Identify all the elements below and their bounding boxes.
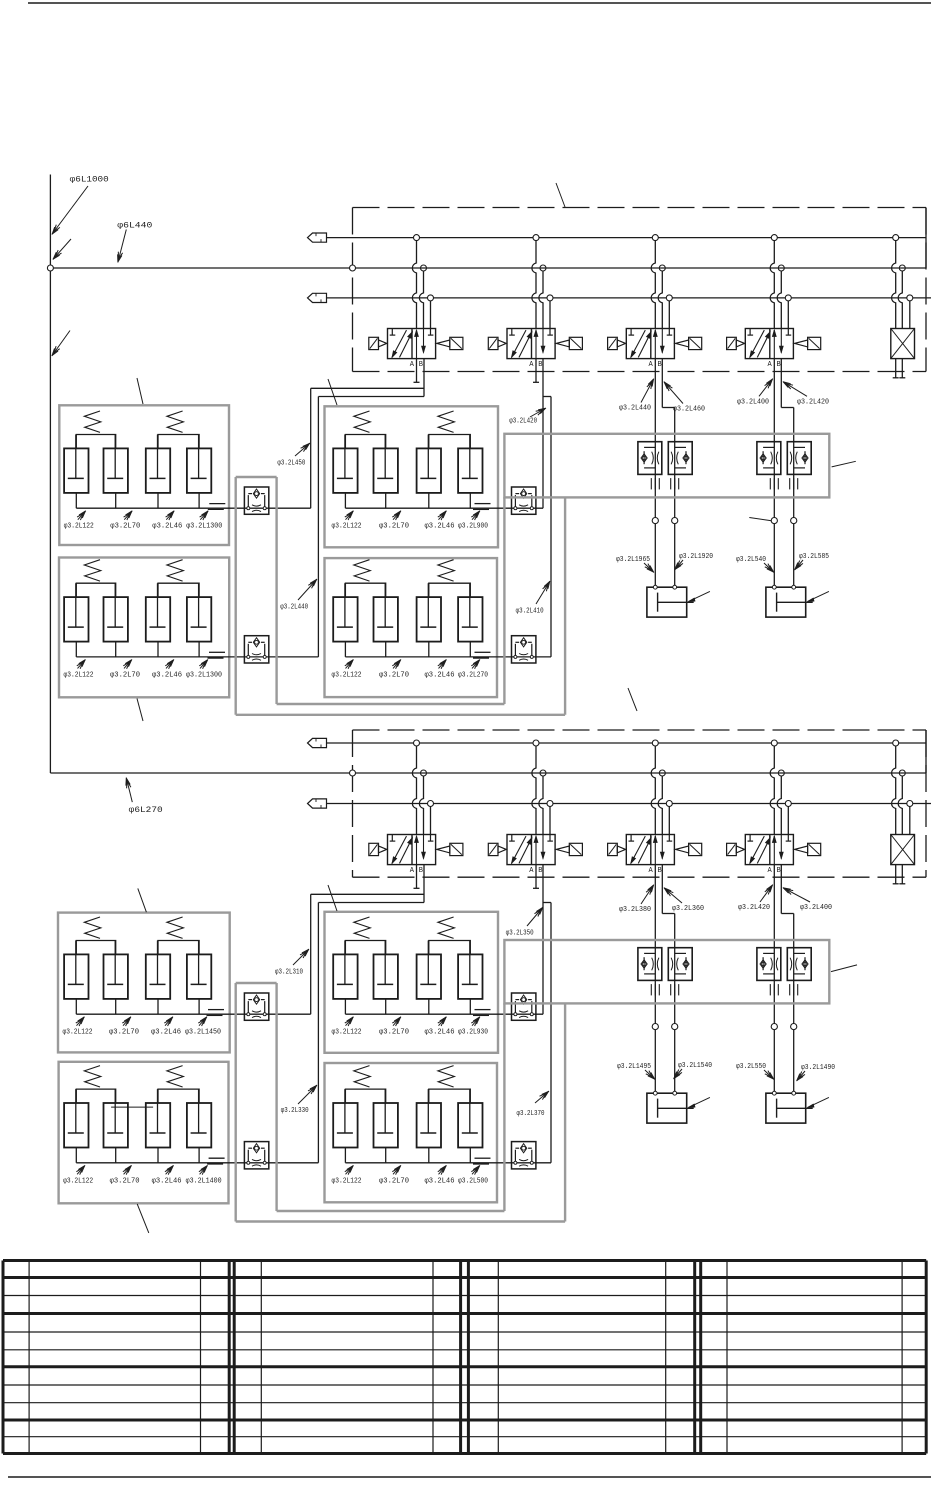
svg-text:φ3.2L1300: φ3.2L1300 <box>186 671 222 679</box>
svg-text:φ3.2L330: φ3.2L330 <box>281 1107 309 1115</box>
svg-text:φ3.2L1300: φ3.2L1300 <box>186 523 222 531</box>
svg-text:φ3.2L930: φ3.2L930 <box>458 1029 488 1037</box>
svg-text:φ3.2L122: φ3.2L122 <box>64 523 94 531</box>
svg-text:B: B <box>777 867 781 875</box>
svg-text:φ3.2L122: φ3.2L122 <box>64 671 94 679</box>
svg-text:φ3.2L270: φ3.2L270 <box>458 671 488 679</box>
svg-text:φ3.2L46: φ3.2L46 <box>425 1177 455 1185</box>
svg-text:φ3.2L46: φ3.2L46 <box>425 523 455 531</box>
svg-text:φ3.2L450: φ3.2L450 <box>277 460 305 468</box>
svg-text:φ3.2L1965: φ3.2L1965 <box>616 556 650 564</box>
svg-text:φ3.2L1400: φ3.2L1400 <box>186 1177 222 1185</box>
svg-text:φ3.2L70: φ3.2L70 <box>110 1177 140 1185</box>
svg-text:φ3.2L70: φ3.2L70 <box>379 523 409 531</box>
svg-text:φ3.2L500: φ3.2L500 <box>458 1177 488 1185</box>
svg-text:B: B <box>658 361 662 369</box>
svg-text:φ3.2L122: φ3.2L122 <box>332 1029 362 1037</box>
svg-text:φ3.2L70: φ3.2L70 <box>110 523 140 531</box>
svg-text:φ3.2L1495: φ3.2L1495 <box>617 1063 651 1071</box>
svg-text:φ3.2L540: φ3.2L540 <box>736 556 766 564</box>
svg-text:φ3.2L420: φ3.2L420 <box>797 398 829 406</box>
svg-text:φ3.2L70: φ3.2L70 <box>379 1029 409 1037</box>
svg-text:φ6L440: φ6L440 <box>117 222 152 231</box>
svg-text:φ3.2L46: φ3.2L46 <box>152 523 182 531</box>
svg-text:φ3.2L46: φ3.2L46 <box>425 1029 455 1037</box>
svg-text:φ3.2L420: φ3.2L420 <box>738 904 770 912</box>
svg-text:φ3.2L420: φ3.2L420 <box>509 418 537 426</box>
svg-text:φ3.2L400: φ3.2L400 <box>800 904 832 912</box>
svg-text:φ3.2L122: φ3.2L122 <box>63 1029 93 1037</box>
svg-text:φ3.2L70: φ3.2L70 <box>379 1177 409 1185</box>
svg-text:φ3.2L440: φ3.2L440 <box>280 604 308 612</box>
svg-text:φ3.2L70: φ3.2L70 <box>110 671 140 679</box>
svg-text:φ3.2L1490: φ3.2L1490 <box>801 1064 835 1072</box>
svg-text:φ3.2L400: φ3.2L400 <box>737 398 769 406</box>
svg-text:φ3.2L70: φ3.2L70 <box>109 1029 139 1037</box>
svg-text:B: B <box>538 361 542 369</box>
svg-text:φ3.2L440: φ3.2L440 <box>619 405 651 413</box>
svg-text:φ3.2L585: φ3.2L585 <box>799 553 829 561</box>
svg-text:φ3.2L410: φ3.2L410 <box>516 608 544 616</box>
svg-text:φ3.2L310: φ3.2L310 <box>275 969 303 977</box>
svg-text:φ3.2L370: φ3.2L370 <box>517 1110 545 1118</box>
svg-text:B: B <box>419 867 423 875</box>
svg-text:φ3.2L46: φ3.2L46 <box>152 1177 182 1185</box>
svg-text:φ3.2L380: φ3.2L380 <box>619 906 651 914</box>
svg-text:φ3.2L70: φ3.2L70 <box>379 671 409 679</box>
svg-text:B: B <box>538 867 542 875</box>
svg-text:φ6L270: φ6L270 <box>129 806 163 815</box>
svg-text:φ3.2L350: φ3.2L350 <box>506 930 534 938</box>
svg-text:φ3.2L122: φ3.2L122 <box>332 523 362 531</box>
svg-text:φ3.2L900: φ3.2L900 <box>458 523 488 531</box>
svg-text:φ3.2L460: φ3.2L460 <box>673 406 705 414</box>
svg-text:φ3.2L122: φ3.2L122 <box>63 1177 93 1185</box>
svg-text:φ6L1000: φ6L1000 <box>70 176 109 185</box>
svg-text:φ3.2L46: φ3.2L46 <box>152 671 182 679</box>
svg-text:φ3.2L550: φ3.2L550 <box>736 1063 766 1071</box>
svg-text:φ3.2L46: φ3.2L46 <box>425 671 455 679</box>
svg-text:φ3.2L360: φ3.2L360 <box>672 905 704 913</box>
svg-text:B: B <box>419 361 423 369</box>
svg-text:B: B <box>658 867 662 875</box>
svg-text:φ3.2L122: φ3.2L122 <box>332 1177 362 1185</box>
svg-text:φ3.2L1920: φ3.2L1920 <box>679 553 713 561</box>
svg-text:φ3.2L1540: φ3.2L1540 <box>678 1062 712 1070</box>
svg-text:φ3.2L1450: φ3.2L1450 <box>185 1029 221 1037</box>
svg-text:φ3.2L122: φ3.2L122 <box>332 671 362 679</box>
svg-text:φ3.2L46: φ3.2L46 <box>151 1029 181 1037</box>
svg-text:B: B <box>777 361 781 369</box>
